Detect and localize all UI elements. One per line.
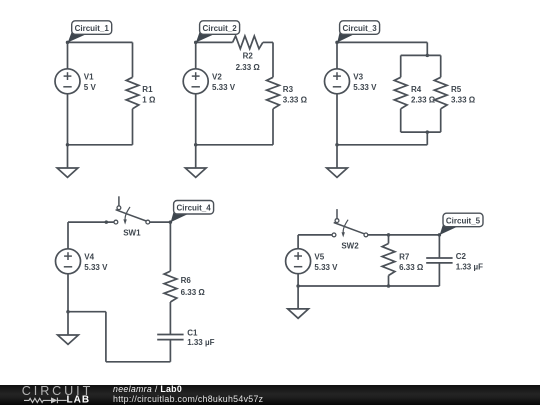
svg-text:C1: C1 [187,329,198,338]
svg-text:R6: R6 [181,276,192,285]
ground circuit2 [185,168,206,177]
resistor R5 [434,77,447,109]
svg-text:V1: V1 [84,73,94,82]
footer title text [113,384,263,404]
wire R7 top lead [388,235,390,244]
switch SW1 top throw stub wire [118,196,120,206]
svg-text:3.33 Ω: 3.33 Ω [451,95,476,104]
node circuit4 top junction [169,220,173,224]
node label Circuit_4 [171,201,214,223]
svg-text:Circuit_5: Circuit_5 [446,216,481,225]
label R1 value 1 Ω [142,85,156,104]
node label Circuit_2 [196,21,240,43]
wire circuit4 bottom [106,361,170,363]
svg-text:Circuit_1: Circuit_1 [75,24,110,33]
wire circuit2 top left [196,41,233,43]
wire R1 bottom lead [132,109,134,145]
svg-text:6.33 Ω: 6.33 Ω [399,263,424,272]
node circuit3 bottom junction [335,143,339,147]
wire V4 top lead [67,222,69,249]
svg-text:3.33 Ω: 3.33 Ω [283,95,308,104]
svg-text:5.33 V: 5.33 V [314,263,338,272]
resistor R4 [394,77,407,109]
svg-text:V5: V5 [314,253,324,262]
wire circuit3 right drop [426,42,428,55]
wire R6 to C1 [169,302,171,335]
wire switch to R7 node [368,234,389,236]
svg-text:V3: V3 [353,73,363,82]
svg-text:5.33 V: 5.33 V [84,263,108,272]
switch SW2 arm [334,223,365,234]
voltage source V4 [56,249,81,274]
node R7 bottom junction [387,284,391,288]
switch SW1 actuation arrow [123,207,130,225]
wire V4 bottom lead [67,274,69,312]
ground circuit3 [327,168,348,177]
wire R4 top lead [400,55,402,77]
wire circuit4 return [68,311,106,313]
svg-text:5.33 V: 5.33 V [353,83,377,92]
resistor R2 [233,36,263,49]
svg-text:1.33 µF: 1.33 µF [456,263,483,272]
capacitor C1 [157,335,183,340]
label R2 value 2.33 Ω [236,52,261,73]
wire circuit5 top to switch [298,234,332,236]
svg-text:LAB: LAB [67,394,91,405]
label R4 value 2.33 Ω [411,85,436,104]
wire R5 top lead [440,55,442,77]
svg-text:C2: C2 [456,252,467,261]
wire R3 bottom lead [272,109,274,145]
wire circuit4 top to switch [68,221,114,223]
label V1 value [84,73,97,92]
ground circuit5 [288,309,309,318]
ground circuit4 [58,335,79,344]
node parallel top junction [426,54,430,58]
ground circuit1 [57,168,78,177]
svg-text:V4: V4 [84,253,94,262]
node parallel bottom junction [426,130,430,134]
wire V5 bottom lead [297,274,299,286]
node circuit2 top junction [194,41,198,45]
node circuit4 wire junction [105,220,109,224]
svg-text:SW2: SW2 [341,242,359,251]
svg-text:1 Ω: 1 Ω [142,95,156,104]
switch SW1 right terminal [146,220,150,224]
svg-text:R3: R3 [283,85,294,94]
wire circuit1 top [68,41,133,43]
wire V1 top lead [67,42,69,68]
label R7 value 6.33 Ω [399,252,424,272]
CircuitLab logo [0,385,110,405]
svg-text:R7: R7 [399,252,410,261]
resistor R3 [267,77,280,109]
svg-text:6.33 Ω: 6.33 Ω [181,288,206,297]
wire switch to node [150,221,171,223]
wire R7 node to C2 node [389,234,440,236]
wire parallel top bus [401,54,441,56]
switch SW1 pole terminal [114,220,118,224]
switch SW2 actuation arrow [342,220,349,238]
voltage source V3 [325,69,350,94]
wire parallel bottom bus [401,131,441,133]
wire circuit2 top right [263,41,273,43]
node circuit1 bottom junction [66,143,70,147]
resistor R1 [126,77,139,109]
label C1 value 1.33 µF [187,329,214,348]
wire V3 bottom lead [336,94,338,145]
resistor R6 [164,271,177,302]
wire circuit1 ground lead [67,145,69,168]
wire R6 top lead [169,222,171,271]
svg-text:5.33 V: 5.33 V [212,83,236,92]
wire C1 bottom lead [169,340,171,362]
svg-text:Circuit_3: Circuit_3 [342,24,377,33]
wire R3 top lead [272,42,274,77]
wire circuit3 right rise [426,132,428,145]
wire V1 bottom lead [67,94,69,145]
node circuit1 top junction [66,41,70,45]
voltage source V2 [183,69,208,94]
switch SW2 pole terminal [332,233,336,237]
capacitor C2 [426,258,452,263]
wire R1 top lead [132,42,134,77]
wire circuit2 bottom [196,144,273,146]
label R6 value 6.33 Ω [181,276,206,297]
label V4 value [84,253,108,272]
voltage source V5 [286,249,311,274]
wire circuit2 ground lead [195,145,197,168]
wire R7 bottom lead [388,276,390,287]
svg-text:5 V: 5 V [84,83,97,92]
wire circuit3 top [337,41,427,43]
switch SW2 top throw stub wire [336,209,338,219]
svg-text:SW1: SW1 [123,229,141,238]
switch SW2 top throw terminal [335,219,339,223]
wire R5 bottom lead [440,109,442,132]
label V2 value [212,73,236,92]
node circuit4 bottom junction [66,310,70,314]
node label Circuit_5 [440,213,483,235]
wire V2 bottom lead [195,94,197,145]
svg-text:R5: R5 [451,85,462,94]
voltage source V1 [55,69,80,94]
svg-text:V2: V2 [212,73,222,82]
logo resistor-diode squiggle [24,398,67,404]
switch SW2 right terminal [364,233,368,237]
svg-text:Circuit_2: Circuit_2 [202,24,237,33]
wire circuit5 ground lead [297,286,299,309]
wire circuit3 bottom [337,144,427,146]
svg-text:2.33 Ω: 2.33 Ω [236,63,261,72]
svg-text:1.33 µF: 1.33 µF [187,338,214,347]
node circuit5 bottom junction [296,284,300,288]
label R3 value 3.33 Ω [283,85,308,104]
node circuit2 bottom junction [194,143,198,147]
node label Circuit_3 [337,21,379,43]
svg-text:R2: R2 [243,52,254,61]
wire C2 top lead [438,235,440,258]
svg-text:R4: R4 [411,85,422,94]
wire circuit4 ground lead [67,312,69,335]
wire circuit3 ground lead [336,145,338,168]
label V3 value [353,73,377,92]
node R7 top junction [387,233,391,237]
switch SW1 top throw terminal [117,206,121,210]
node circuit3 top junction [335,41,339,45]
svg-text:Circuit_4: Circuit_4 [176,204,211,213]
resistor R7 [382,244,395,276]
wire R4 bottom lead [400,109,402,132]
wire circuit1 bottom [68,144,133,146]
node circuit5 top junction [438,233,442,237]
label V5 value [314,253,338,272]
label R5 value 3.33 Ω [451,85,476,104]
wire C2 bottom lead [438,263,440,286]
wire V2 top lead [195,42,197,68]
label C2 value 1.33 µF [456,252,483,272]
wire V5 top lead [297,235,299,249]
node label Circuit_1 [68,21,112,43]
wire circuit4 left rise [105,312,107,362]
switch SW1 arm [116,210,147,221]
wire V3 top lead [336,42,338,68]
svg-text:R1: R1 [142,85,153,94]
wire circuit5 bottom [298,285,439,287]
